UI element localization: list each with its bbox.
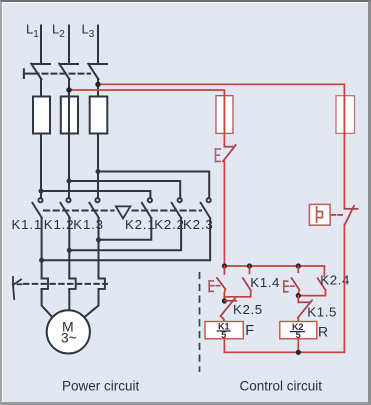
svg-text:3~: 3~ [61,329,77,345]
wire L1 to K2.1 top [41,191,150,198]
contact K2.2 [172,198,182,218]
wire K1.1 down [41,218,43,279]
wire K2.2 to L2 leg [69,218,181,250]
node L3 tap dot [95,82,100,87]
switch Q0 pole 1 [31,64,50,79]
overload heater phase 3 [99,279,105,289]
fuse F4 (control left, red) [216,96,233,134]
node L2 tap dot [66,87,71,92]
wire fuse F4 to overload contact [223,133,225,146]
wire L2 drop [68,26,70,64]
wire K1.2 down [68,218,70,279]
wire K2.3 to L1 leg [42,218,211,260]
contact K1.1 [32,198,42,218]
wire L2 fuse to contact [68,134,70,199]
fuse F5 (control right, red) [336,96,355,134]
svg-text:F: F [245,323,254,339]
svg-text:K1.4: K1.4 [250,275,280,290]
emergency stop linkage dashed [332,214,344,216]
overload heater phase 2 [69,279,75,289]
coil K2 [280,322,317,341]
svg-text:K1.5: K1.5 [307,305,337,320]
overload relay linkage dashed [24,283,107,285]
node dot L2 branch [67,179,72,184]
switch Q0 actuator [24,69,32,78]
wire L2 switch to fuse [68,79,70,97]
overload relay F2 trip lever [13,277,22,299]
wire L3 drop [97,26,99,64]
pushbutton S1 (forward start) [217,266,225,289]
pushbutton S1 cap [209,281,220,292]
switch Q0 pole 2 [59,64,78,79]
svg-text:Control circuit: Control circuit [240,379,323,394]
wire K1.3 down [98,218,100,279]
contact K1.2 [60,198,70,218]
wire L2 to K2.2 top [69,181,180,198]
node dot L1 branch [39,189,44,194]
svg-text:L1: L1 [26,22,39,41]
wire K1.4 to merge [224,290,250,297]
coil K1 [205,321,243,340]
contact K1.4 [243,266,251,290]
wire K2.1 to L3 leg [99,218,152,240]
contact K1.5 (NC) [298,296,312,318]
motor M 3~ [47,310,90,353]
contact K2.3 [201,198,211,218]
pushbutton S2 (reverse start) [292,266,300,290]
wire K2.5 to coil K1 [221,316,224,321]
node dot S2/K1.5 junction [296,293,301,298]
wire red L3 tap to right fuse [98,84,344,95]
fuse F1 [33,97,50,134]
overload NC contact 95-96 [223,145,236,161]
contact K2.4 [318,278,326,290]
svg-text:Power circuit: Power circuit [62,379,140,394]
node dot rail S1 [222,263,227,268]
wire L1 switch to fuse [40,79,42,97]
wire coil K1 to bottom rail [223,339,225,353]
wire emergency stop down to rail [343,224,345,352]
node dot S1/K2.5 junction [222,298,227,303]
fuse F3 [90,97,108,134]
svg-text:R: R [318,323,328,339]
wire red L2 tap to left fuse [69,90,224,97]
wire overload contact to rail [223,162,225,267]
control bottom rail [224,351,344,353]
emergency stop head box [309,204,330,225]
svg-text:L3: L3 [82,22,95,41]
wire to motor V [68,289,70,310]
svg-text:K1.1: K1.1 [12,217,43,232]
wire S1 to junction [223,289,226,301]
svg-text:K2.5: K2.5 [233,302,263,317]
wire L3 switch to fuse [97,79,99,97]
switch Q0 pole 3 [88,64,107,79]
contact K1.3 [89,198,99,218]
svg-text:L2: L2 [52,22,65,41]
node dot rail K1.4 [247,263,252,268]
wire L3 to K2.3 top [98,172,209,199]
overload heater phase 1 [42,279,48,289]
wire L1 drop [40,26,42,64]
node dot L3 branch [96,169,101,174]
wire L1 fuse to contact [40,134,42,199]
separator dashed line [199,273,201,371]
interlock linkage dashed right [133,210,202,212]
switch Q0 linkage (dashed) [34,73,91,75]
wire to motor U [42,289,52,317]
control top rail [224,265,324,267]
emergency stop NC contact [344,206,357,224]
interlock triangle [116,206,131,218]
node dot bottom rail [296,350,301,355]
wire L3 fuse to contact [97,134,99,199]
wire to motor W [85,289,99,317]
node dot merge L1 [39,258,44,263]
fuse F2 [61,97,78,134]
node dot rail S2 [296,263,301,268]
pushbutton S2 cap [284,281,294,292]
wire S2 to junction [298,290,299,296]
svg-text:K2.3: K2.3 [183,217,214,232]
node dot merge L2 [67,248,72,253]
wire coil K2 to bottom rail [297,339,299,353]
svg-text:K2.4: K2.4 [320,273,350,288]
wire F5 to emergency stop [343,133,345,208]
contact K2.1 [142,198,152,218]
node dot merge L3 [96,237,101,242]
interlock linkage dashed left [44,210,114,212]
wire K1.5 to coil K2 [297,317,299,321]
wire rail to K2.4 [323,266,325,277]
contact K2.5 (NC) [221,298,237,316]
wire K2.4 to merge [298,290,325,296]
overload NC thermal cap [216,149,221,162]
